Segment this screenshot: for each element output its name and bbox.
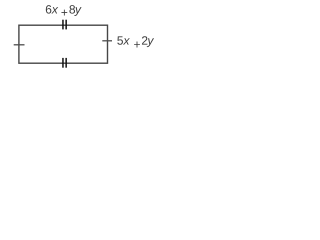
right tick	[102, 40, 112, 42]
left tick	[14, 44, 25, 46]
bottom double tick	[62, 58, 64, 68]
top double tick	[62, 20, 64, 30]
label right: 5x + 2y	[117, 36, 154, 47]
rectangle outline	[19, 25, 108, 63]
label top: 6x + 8y	[46, 5, 82, 16]
